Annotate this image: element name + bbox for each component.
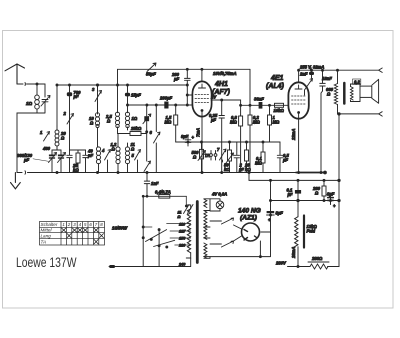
ground symbol bbox=[11, 173, 21, 189]
svg-text:(AL4): (AL4) bbox=[266, 83, 285, 90]
svg-text:1: 1 bbox=[40, 130, 43, 135]
switch 5 bbox=[132, 150, 141, 173]
svg-text:6: 6 bbox=[89, 222, 92, 227]
resistor 25k horizontal bbox=[118, 126, 147, 136]
capacitor 10nF tone bbox=[320, 69, 332, 172]
label 280V bbox=[275, 261, 287, 266]
bottom B- rail bbox=[288, 266, 340, 268]
svg-text:MΩ: MΩ bbox=[273, 120, 280, 125]
svg-text:110: 110 bbox=[179, 223, 186, 227]
svg-text:Mittel: Mittel bbox=[41, 227, 53, 232]
svg-text:127: 127 bbox=[179, 230, 186, 234]
svg-text:MΩ: MΩ bbox=[230, 120, 237, 125]
svg-text:16/50W: 16/50W bbox=[112, 226, 128, 231]
resistor 200 ohm bbox=[312, 179, 326, 200]
svg-text:22mA: 22mA bbox=[291, 129, 296, 141]
svg-text:8µF: 8µF bbox=[327, 192, 335, 197]
resistor 0,2M bbox=[248, 105, 260, 172]
svg-text:4V 0,6A: 4V 0,6A bbox=[211, 192, 227, 197]
switch 6 bbox=[150, 130, 161, 173]
svg-text:TA: TA bbox=[205, 153, 210, 158]
svg-text:+: + bbox=[192, 135, 195, 140]
power transformer primary bbox=[186, 205, 190, 258]
wire antenna to plug bbox=[17, 83, 23, 85]
speaker bbox=[360, 79, 379, 103]
B+ rail y200.7 bbox=[271, 200, 340, 202]
tone switch bbox=[305, 79, 313, 96]
label 255V 32mA bbox=[299, 65, 324, 70]
svg-text:MΩ: MΩ bbox=[165, 120, 172, 125]
capacitor 40pF bbox=[70, 149, 94, 173]
coil lower left bbox=[96, 147, 100, 173]
label 1 ohm bbox=[26, 101, 33, 106]
potentiometer 500 ohm bbox=[192, 142, 206, 173]
anode supply drop x250 bbox=[249, 69, 251, 105]
svg-text:Feld: Feld bbox=[307, 229, 316, 234]
svg-text:3: 3 bbox=[92, 87, 95, 92]
tuning gang 360/130pF bbox=[49, 146, 73, 173]
capacitor 700pF bbox=[67, 84, 72, 150]
riser x117.5 top line to osc coil bbox=[117, 69, 119, 112]
capacitor 2uF bbox=[234, 142, 244, 173]
svg-text:TA: TA bbox=[41, 239, 47, 244]
riser x57 to coil 20ohm bbox=[56, 84, 58, 126]
svg-text:10kΩ: 10kΩ bbox=[274, 108, 285, 113]
label 20mA bbox=[291, 247, 296, 259]
svg-text:2: 2 bbox=[63, 111, 67, 116]
svg-text:2nF: 2nF bbox=[299, 72, 308, 77]
speaker bottom lead bbox=[338, 112, 383, 116]
field coil 12k bbox=[295, 199, 318, 266]
wire grid cap to tube1 bbox=[201, 69, 203, 81]
svg-text:µF: µF bbox=[210, 118, 216, 123]
electrolytic 8uF main bbox=[267, 211, 284, 223]
grid top line with trimmer 50pF bbox=[118, 63, 251, 77]
coil 11 ohm bbox=[125, 142, 135, 173]
resistor 20k bbox=[244, 141, 251, 173]
label 400 trimmer bbox=[42, 146, 51, 151]
transformer core bbox=[343, 83, 346, 104]
label 140 NG (AZ1) bbox=[238, 208, 261, 222]
tube2 anode top wire bbox=[298, 69, 300, 82]
svg-text:Ω: Ω bbox=[111, 147, 116, 152]
svg-text:kΩ: kΩ bbox=[224, 167, 230, 172]
svg-text:Ω: Ω bbox=[89, 121, 94, 126]
label 2V bbox=[210, 95, 217, 100]
svg-text:8µF: 8µF bbox=[276, 211, 284, 216]
label 4H1 (AF7) bbox=[212, 81, 231, 96]
rectifier output wire bbox=[261, 179, 272, 232]
electrolytic 8uF second bbox=[327, 192, 336, 209]
resistor 10k series grid bbox=[274, 103, 285, 113]
capacitor 20pF grid bbox=[171, 69, 193, 106]
label 700pF bbox=[73, 90, 82, 99]
wire coil bottom to ground rail bbox=[17, 113, 37, 173]
capacitor 15pF bbox=[125, 84, 141, 113]
svg-text:50pF: 50pF bbox=[146, 72, 156, 77]
svg-text:0,4/0,7A: 0,4/0,7A bbox=[155, 190, 171, 195]
transformer secondaries bbox=[204, 199, 210, 258]
capacitor 2nF bbox=[299, 69, 314, 78]
svg-text:7: 7 bbox=[95, 222, 98, 227]
antenna bbox=[5, 64, 25, 84]
diode line into tube1 bbox=[127, 104, 193, 106]
mains lead bbox=[109, 258, 191, 268]
svg-text:5: 5 bbox=[132, 153, 135, 158]
osc trimmer bbox=[143, 105, 151, 172]
svg-text:Ω: Ω bbox=[326, 92, 331, 97]
switch 4 bbox=[101, 148, 111, 173]
svg-text:1: 1 bbox=[62, 222, 65, 227]
vertical from transformer bottom down bbox=[338, 114, 340, 267]
svg-text:4: 4 bbox=[79, 222, 82, 227]
svg-text:5: 5 bbox=[84, 222, 87, 227]
svg-text:Ω: Ω bbox=[60, 136, 65, 141]
svg-text:µF: µF bbox=[287, 192, 293, 197]
osc coil 2,5 ohm bbox=[105, 112, 120, 133]
svg-text:Ω: Ω bbox=[314, 191, 319, 196]
switch 1 bbox=[40, 130, 50, 141]
svg-text:8: 8 bbox=[100, 222, 103, 227]
svg-text:7mA: 7mA bbox=[196, 128, 201, 137]
svg-text:400: 400 bbox=[42, 146, 51, 151]
B+ top line 255V bbox=[299, 69, 338, 71]
mains switch 8 bbox=[184, 196, 194, 213]
tube2 cathode to bus with 22mA bbox=[291, 114, 299, 173]
svg-text:MΩ: MΩ bbox=[255, 161, 262, 166]
label 4E1 (AL4) bbox=[266, 75, 285, 90]
fuse 0,4/0,7A bbox=[143, 190, 186, 199]
antenna plug connector bbox=[25, 83, 45, 86]
dial lamp 4V 0,6A bbox=[210, 192, 227, 212]
svg-text:6: 6 bbox=[150, 130, 153, 135]
selector tap labels bbox=[177, 211, 187, 267]
svg-text:(AZ1): (AZ1) bbox=[240, 215, 257, 222]
svg-text:7: 7 bbox=[217, 147, 220, 152]
bus junction dots bbox=[56, 171, 326, 174]
output transformer primary 600ohm bbox=[326, 69, 339, 114]
rectifier heater arms bbox=[210, 218, 242, 247]
svg-text:pF: pF bbox=[173, 77, 180, 82]
speaker top lead bbox=[338, 68, 383, 72]
svg-text:220: 220 bbox=[178, 244, 186, 248]
svg-text:1Ω: 1Ω bbox=[132, 116, 138, 121]
title Loewe 137W bbox=[16, 254, 76, 270]
svg-text:µF: µF bbox=[282, 158, 288, 163]
svg-text:+: + bbox=[333, 204, 336, 209]
label 16V/0,75mA bbox=[213, 71, 237, 76]
svg-text:140 NG: 140 NG bbox=[238, 208, 261, 215]
svg-text:10nF: 10nF bbox=[322, 76, 332, 81]
capacitor 30nF bbox=[254, 97, 264, 109]
coil 1,2 ohm bbox=[111, 134, 121, 173]
svg-text:30nF: 30nF bbox=[254, 97, 264, 102]
tube1 4H1 (AF7) bbox=[192, 81, 211, 116]
rectifier tube 140NG (AZ1) bbox=[242, 223, 260, 241]
potentiometer 50k bbox=[224, 141, 234, 173]
svg-text:200pF: 200pF bbox=[159, 96, 173, 101]
resistor 0,1M bbox=[255, 141, 265, 173]
osc coil 1 ohm bbox=[125, 112, 137, 130]
top bus left section bbox=[57, 84, 188, 86]
capacitor 1nF bbox=[144, 173, 159, 197]
transformer secondary 0,2 bbox=[351, 79, 361, 102]
resistor 25k vertical bbox=[72, 150, 80, 173]
resistor 1,5M bbox=[165, 105, 178, 142]
tube1 cathode wire with 7mA bbox=[196, 112, 202, 173]
svg-text:2: 2 bbox=[67, 222, 71, 227]
svg-text:16V/0,75mA: 16V/0,75mA bbox=[213, 71, 237, 76]
svg-text:11: 11 bbox=[178, 211, 182, 215]
bottom heater rail bbox=[204, 232, 271, 258]
svg-text:8µF: 8µF bbox=[181, 134, 189, 139]
transformer core bbox=[196, 202, 199, 263]
label 360/130 pF bbox=[17, 153, 49, 163]
capacitor 0,1uF bbox=[287, 179, 302, 200]
coil 10 ohm bbox=[89, 84, 100, 147]
coupling line to tube2 bbox=[240, 104, 289, 106]
voltage selector terminals bbox=[142, 195, 191, 266]
antenna trimmer capacitor bbox=[37, 84, 50, 113]
svg-text:pF: pF bbox=[87, 153, 94, 158]
svg-text:15pF: 15pF bbox=[131, 93, 141, 98]
svg-text:kΩ: kΩ bbox=[245, 167, 251, 172]
svg-text:kΩ: kΩ bbox=[73, 168, 79, 173]
tube1 anode wire right bbox=[211, 99, 241, 115]
svg-text:Ω: Ω bbox=[106, 119, 111, 124]
switch 7 bbox=[217, 147, 226, 162]
ground rail (chassis bus) bbox=[17, 171, 325, 174]
audio line y143.5 bbox=[176, 141, 280, 143]
svg-text:Ω: Ω bbox=[130, 147, 135, 152]
resistor 280 ohm bbox=[308, 256, 329, 269]
svg-text:Ω: Ω bbox=[177, 215, 181, 219]
TA jacks bbox=[205, 151, 217, 161]
tube2 4E1 (AL4) bbox=[288, 82, 308, 118]
svg-text:0,2: 0,2 bbox=[354, 79, 360, 84]
label 16/50W bbox=[112, 226, 128, 231]
second bus y180.4 bbox=[248, 172, 339, 181]
svg-text:µF: µF bbox=[238, 167, 244, 172]
antenna coil 1ohm bbox=[35, 84, 40, 113]
svg-text:Schalter: Schalter bbox=[41, 222, 58, 227]
resistor 0,8M anode load bbox=[230, 115, 243, 173]
coil 20 ohm bbox=[55, 126, 66, 150]
svg-text:4: 4 bbox=[101, 148, 105, 153]
wire switch6 up bbox=[155, 105, 157, 132]
svg-text:4H1: 4H1 bbox=[214, 81, 228, 88]
svg-text:1nF: 1nF bbox=[151, 181, 159, 186]
svg-text:pF: pF bbox=[23, 158, 30, 163]
left RF: switch 2 bbox=[63, 111, 74, 124]
svg-text:1Ω: 1Ω bbox=[26, 101, 33, 106]
switch table bbox=[39, 221, 104, 245]
resistor 1M grid leak bbox=[268, 104, 280, 142]
svg-text:240: 240 bbox=[178, 263, 186, 267]
capacitor 200pF bbox=[159, 96, 173, 109]
svg-text:20mA: 20mA bbox=[291, 247, 296, 259]
svg-text:280V: 280V bbox=[275, 261, 287, 266]
svg-text:280Ω: 280Ω bbox=[311, 256, 323, 261]
svg-text:Ω: Ω bbox=[192, 155, 197, 160]
electrolytic 8uF bbox=[181, 134, 195, 146]
capacitor 0,25uF bbox=[209, 100, 224, 173]
svg-text:MΩ: MΩ bbox=[253, 120, 260, 125]
svg-text:25kΩ: 25kΩ bbox=[130, 126, 142, 131]
svg-text:pF: pF bbox=[73, 94, 80, 99]
svg-text:Lang: Lang bbox=[41, 233, 52, 238]
switch 3 bbox=[92, 84, 102, 114]
capacitor 0,5uF bbox=[277, 142, 289, 173]
svg-text:3: 3 bbox=[73, 222, 76, 227]
svg-text:150: 150 bbox=[179, 237, 186, 241]
svg-text:4E1: 4E1 bbox=[270, 75, 284, 82]
wire top line down to grid cap wire bbox=[186, 68, 203, 70]
